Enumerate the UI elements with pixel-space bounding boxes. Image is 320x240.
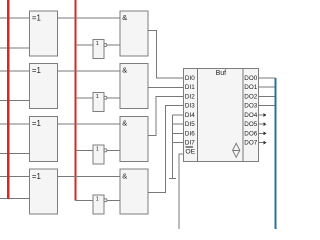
wire bus red B [74,0,76,200]
wire input row4a [0,176,29,178]
svg-text:DI7: DI7 [185,140,195,147]
svg-text:DO7: DO7 [244,140,257,147]
wire inv2 out [107,97,120,99]
wire inv3 in [76,149,94,151]
svg-text:DO4: DO4 [244,112,257,119]
wire DI4-DI7 feeder vertical [172,115,174,179]
wire xor4 out [58,176,120,178]
svg-text:&: & [122,171,127,180]
and gate U10 [120,64,148,109]
wire DI5 stub [173,123,184,125]
wire and4 out to DI3 [148,106,184,193]
svg-text:=1: =1 [32,119,41,128]
svg-text:DI4: DI4 [185,112,195,119]
svg-text:OE: OE [185,149,195,156]
wire OE [179,154,183,229]
svg-text:DI2: DI2 [185,93,195,100]
wire DI6 stub [173,132,184,134]
wire input row2a [0,70,29,72]
buffer U13 Buf [184,69,259,162]
wire inv3 out [107,149,120,151]
wire input row2b [0,100,29,102]
svg-text:DO3: DO3 [244,103,257,110]
wire DO0 [258,77,275,79]
wire inv2 in [76,97,94,99]
svg-text:Buf: Buf [216,70,227,77]
svg-text:1: 1 [96,196,99,202]
svg-text:DO1: DO1 [244,84,257,91]
svg-text:DI5: DI5 [185,121,195,128]
wire xor2 out [58,70,120,72]
wire DO7 arrow [258,141,266,145]
xor gate U1 [29,11,57,56]
wire input row4b [0,198,29,200]
svg-text:&: & [122,66,127,75]
xor gate U4 [29,169,57,214]
xor gate U2 [29,64,57,109]
svg-text:=1: =1 [32,13,41,22]
svg-text:DI3: DI3 [185,103,195,110]
wire input row3b [0,152,29,154]
svg-text:1: 1 [96,147,99,153]
svg-text:DO5: DO5 [244,121,257,128]
wire and1 out to DI0 [148,31,184,78]
svg-text:=1: =1 [32,172,41,181]
wire DI7 stub [173,142,184,144]
svg-text:1: 1 [96,94,99,100]
svg-text:DI6: DI6 [185,130,195,137]
wire DI4 stub [173,114,184,116]
wire and3 out to DI2 [148,96,184,135]
svg-text:&: & [122,119,127,128]
wire xor1 out [58,17,120,19]
inverter U8 [93,195,107,214]
svg-text:DO6: DO6 [244,130,257,137]
wire input row3a [0,123,29,125]
inverter U5 [93,40,107,59]
wire inv1 in [76,44,94,46]
wire xor3 out [58,123,120,125]
svg-text:DO2: DO2 [244,93,257,100]
wire DO5 arrow [258,122,266,126]
and gate U11 [120,116,148,161]
wire inv4 in [76,199,94,201]
and gate U9 [120,11,148,56]
wire inv1 out [107,44,120,46]
wire inv4 out [107,199,120,201]
wire DO6 arrow [258,131,266,135]
wire bus red A [7,0,9,199]
wire input row1a [0,17,29,19]
wire feeder end crossbar [169,178,176,180]
inverter U6 [93,93,107,112]
svg-text:=1: =1 [32,66,41,75]
wire DO4 arrow [258,113,266,117]
xor gate U3 [29,116,57,161]
wire and2 out to DI1 [148,87,184,89]
svg-text:DI1: DI1 [185,84,195,91]
wire DO3 [258,105,275,107]
inverter U7 [93,145,107,164]
wire input row1b [0,47,29,49]
svg-text:&: & [122,13,127,22]
wire DO2 [258,95,275,97]
svg-text:DO0: DO0 [244,75,257,82]
and gate U12 [120,169,148,214]
wire DO1 [258,86,275,88]
svg-text:DI0: DI0 [185,75,195,82]
svg-text:1: 1 [96,41,99,47]
wire bus blue [274,78,276,229]
tri-state diamond [233,143,240,157]
